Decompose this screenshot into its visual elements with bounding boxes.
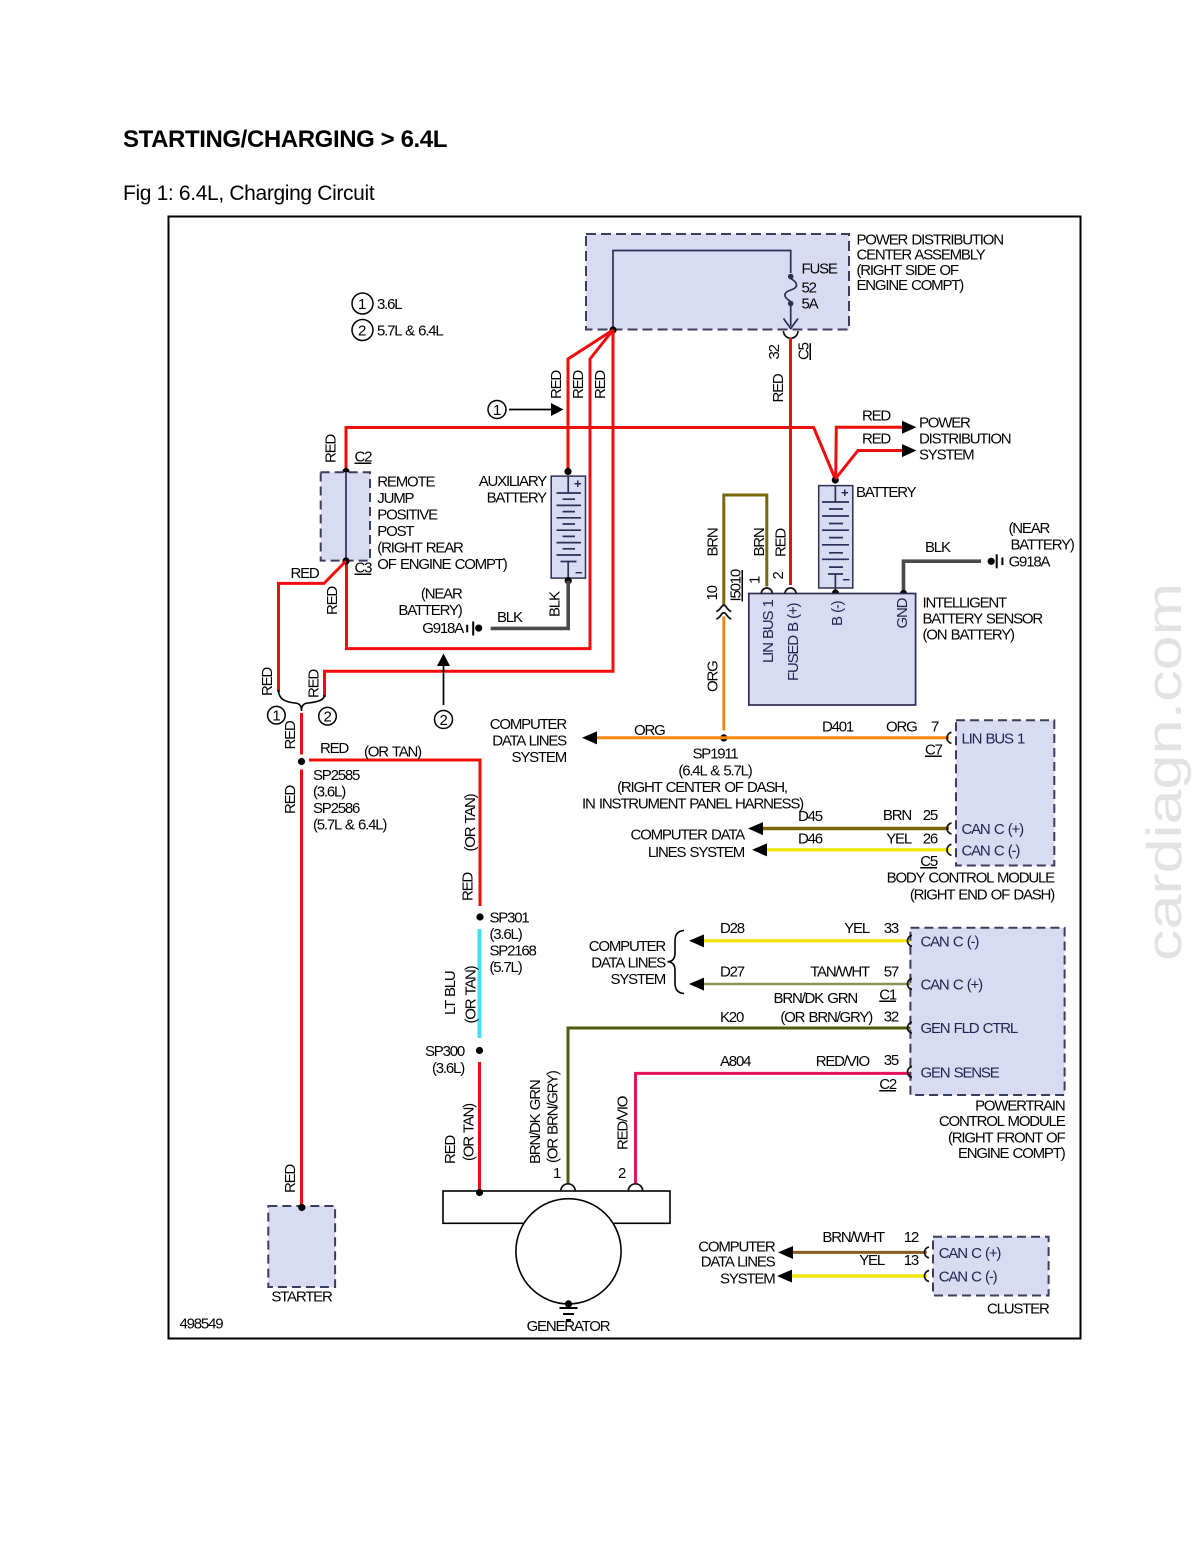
svg-text:C2: C2 (879, 1076, 897, 1093)
svg-text:POWERTRAIN: POWERTRAIN (975, 1097, 1065, 1114)
svg-text:(5.7L & 6.4L): (5.7L & 6.4L) (313, 817, 387, 834)
svg-text:CAN C (-): CAN C (-) (921, 933, 980, 950)
svg-text:SP2585: SP2585 (313, 767, 360, 784)
svg-text:BRN: BRN (883, 807, 911, 824)
wire ORG D401 row (582, 719, 949, 759)
svg-text:Fig 1: 6.4L, Charging Circuit: Fig 1: 6.4L, Charging Circuit (123, 182, 375, 205)
wire RED battery to power distribution system arrow 1 (836, 408, 917, 479)
svg-text:BLK: BLK (925, 539, 951, 556)
svg-text:BATTERY): BATTERY) (1011, 537, 1075, 554)
svg-text:BLK: BLK (547, 591, 564, 617)
PCM pin CAN C (-) (907, 933, 979, 950)
svg-text:JUMP: JUMP (377, 490, 414, 507)
computer data lines system label (D401) (490, 716, 568, 766)
svg-text:DISTRIBUTION: DISTRIBUTION (919, 431, 1011, 448)
wire YEL D46 row (752, 831, 949, 870)
svg-text:RED: RED (306, 669, 323, 698)
node generator B+ (476, 1189, 483, 1196)
svg-text:(OR TAN): (OR TAN) (462, 793, 479, 851)
svg-text:FUSED B (+): FUSED B (+) (785, 602, 802, 681)
legend note 1: 3.6L (352, 293, 402, 314)
svg-text:ORG: ORG (634, 722, 665, 739)
generator circle (516, 1199, 621, 1304)
auxiliary battery label (479, 473, 547, 507)
svg-text:G918A: G918A (1009, 554, 1051, 571)
svg-text:LINES SYSTEM: LINES SYSTEM (648, 844, 745, 861)
wire BRN/DK GRN K20 row (527, 990, 911, 1184)
wire RED battery to power distribution system arrow 2 (835, 431, 916, 480)
wire BRN/WHT cluster CAN C (+) row (778, 1229, 927, 1259)
inline connector I5010 (704, 569, 745, 619)
svg-text:OF ENGINE COMPT): OF ENGINE COMPT) (377, 556, 507, 573)
svg-text:COMPUTER: COMPUTER (589, 938, 667, 955)
svg-text:SYSTEM: SYSTEM (512, 749, 567, 766)
svg-text:RED: RED (862, 408, 891, 425)
splice SP300 label (425, 1043, 465, 1077)
intelligent battery sensor box (749, 594, 916, 706)
svg-text:(NEAR: (NEAR (1009, 520, 1051, 537)
svg-text:(OR TAN): (OR TAN) (463, 965, 480, 1023)
svg-text:BLK: BLK (497, 609, 523, 626)
svg-text:RED: RED (259, 667, 276, 696)
svg-text:−: − (575, 565, 583, 580)
splice SP2585 node (298, 758, 305, 765)
svg-text:TAN/WHT: TAN/WHT (810, 964, 870, 981)
svg-text:1: 1 (272, 708, 280, 725)
svg-text:−: − (843, 572, 851, 587)
cluster pin CAN C (+) (924, 1245, 1001, 1262)
svg-text:(RIGHT CENTER OF DASH,: (RIGHT CENTER OF DASH, (617, 779, 787, 796)
svg-text:SP300: SP300 (425, 1043, 465, 1060)
connector C3 label (355, 560, 373, 577)
generator ground (560, 1300, 578, 1320)
svg-text:SYSTEM: SYSTEM (919, 447, 974, 464)
svg-text:LIN BUS 1: LIN BUS 1 (760, 599, 777, 663)
starter label (271, 1289, 333, 1306)
svg-text:POST: POST (377, 523, 414, 540)
splice SP300 node (476, 1047, 483, 1054)
svg-text:RED: RED (442, 1135, 459, 1164)
svg-text:+: + (841, 485, 849, 500)
body control module box (956, 720, 1054, 865)
powertrain control module box (910, 928, 1064, 1095)
PCM pin CAN C (+) (907, 977, 983, 994)
svg-text:2: 2 (770, 572, 787, 580)
wire RED A: PDC to auxiliary battery (548, 330, 613, 470)
svg-text:RED: RED (548, 370, 565, 399)
PDC label (857, 232, 1004, 295)
svg-text:YEL: YEL (886, 831, 912, 848)
wire BLK IBS GND to G918A (right) (904, 539, 982, 594)
svg-text:COMPUTER DATA: COMPUTER DATA (631, 827, 746, 844)
svg-text:CAN C (+): CAN C (+) (921, 977, 984, 994)
figure caption (123, 182, 375, 205)
svg-text:RED: RED (324, 586, 341, 615)
svg-text:(OR BRN/GRY): (OR BRN/GRY) (780, 1009, 873, 1026)
diagram border frame (169, 217, 1081, 1339)
wire YEL cluster CAN C (-) row (777, 1252, 927, 1283)
merge bracket of branch wires (279, 690, 325, 711)
svg-text:C1: C1 (879, 987, 897, 1004)
svg-text:RED: RED (592, 370, 609, 399)
svg-text:POSITIVE: POSITIVE (377, 507, 438, 524)
svg-text:C2: C2 (355, 449, 373, 466)
wire YEL D28 row (689, 920, 911, 947)
svg-text:13: 13 (904, 1252, 919, 1269)
auxiliary battery (551, 476, 585, 580)
svg-text:IN INSTRUMENT PANEL HARNESS): IN INSTRUMENT PANEL HARNESS) (582, 796, 804, 813)
svg-text:RED: RED (770, 373, 787, 402)
BCM pin CAN C (+) (947, 821, 1024, 838)
svg-text:SP301: SP301 (490, 910, 530, 927)
power distribution center assembly box (586, 234, 849, 330)
splice SP2585 label (313, 767, 387, 834)
circled 1 at branch (268, 706, 286, 724)
starter box (268, 1206, 335, 1287)
junction node at PDC bottom (609, 326, 616, 333)
svg-text:C3: C3 (355, 560, 373, 577)
ground G918A near battery (right) (988, 520, 1075, 571)
cluster box (933, 1237, 1049, 1296)
wire LT BLU (OR TAN) (442, 929, 480, 1038)
watermark cardiagn.com (1137, 583, 1192, 961)
svg-text:(3.6L): (3.6L) (490, 926, 523, 943)
svg-text:RED: RED (460, 872, 477, 901)
fuse 52 5A (784, 261, 838, 329)
wire TAN/WHT D27 row (689, 964, 911, 1004)
computer data lines system label (D45/D46) (631, 827, 746, 862)
svg-text:STARTER: STARTER (271, 1289, 333, 1306)
IBS connector bump pin 1 (747, 576, 773, 594)
wire RED (OR TAN) to generator (442, 1062, 480, 1191)
remote jump post label (377, 474, 507, 574)
PCM label (939, 1097, 1066, 1162)
svg-text:10: 10 (704, 585, 721, 600)
svg-text:57: 57 (884, 964, 899, 981)
svg-text:cardiagn.com: cardiagn.com (1137, 583, 1192, 961)
svg-text:(RIGHT FRONT OF: (RIGHT FRONT OF (948, 1130, 1066, 1147)
svg-text:2: 2 (618, 1165, 626, 1182)
splice SP1911 label (582, 746, 804, 813)
IBS pin FUSED B (+) (785, 602, 802, 681)
svg-text:SP2168: SP2168 (490, 943, 537, 960)
svg-text:RED: RED (773, 528, 790, 557)
svg-text:(ON BATTERY): (ON BATTERY) (923, 627, 1016, 644)
wire RED C2 to battery V junction (323, 428, 836, 480)
svg-text:FUSE: FUSE (802, 261, 838, 278)
battery (819, 485, 853, 588)
node aux battery + (564, 468, 571, 475)
svg-text:INTELLIGENT: INTELLIGENT (923, 595, 1008, 612)
computer data lines system label (D28/D27) (589, 938, 667, 988)
svg-text:D28: D28 (720, 920, 745, 937)
wire RED C: PDC down to note-2 branch (306, 330, 614, 698)
svg-text:(NEAR: (NEAR (421, 586, 463, 603)
cluster label (987, 1301, 1050, 1318)
ground G918A near battery (left) (398, 586, 482, 638)
connector C2 label (355, 449, 373, 466)
svg-text:B (-): B (-) (829, 600, 846, 626)
svg-text:COMPUTER: COMPUTER (490, 716, 568, 733)
svg-text:C7: C7 (925, 742, 943, 759)
svg-text:SYSTEM: SYSTEM (611, 971, 666, 988)
svg-text:26: 26 (923, 831, 938, 848)
wire RED C3 to note-1 branch (259, 561, 346, 696)
svg-text:BODY CONTROL MODULE: BODY CONTROL MODULE (887, 870, 1056, 887)
svg-text:LT BLU: LT BLU (442, 971, 459, 1015)
svg-text:RED: RED (320, 740, 349, 757)
node aux battery - (565, 577, 572, 584)
node C3 bottom of jump post (342, 557, 349, 564)
svg-text:K20: K20 (720, 1009, 744, 1026)
svg-text:DATA LINES: DATA LINES (701, 1254, 776, 1271)
svg-text:DATA LINES: DATA LINES (492, 733, 567, 750)
svg-text:(3.6L): (3.6L) (313, 784, 346, 801)
svg-text:D45: D45 (798, 808, 823, 825)
generator connector bump pin 2 (618, 1165, 643, 1191)
svg-text:2: 2 (440, 712, 448, 729)
svg-text:C5: C5 (796, 342, 813, 360)
node IBS GND (900, 590, 907, 597)
svg-text:DATA LINES: DATA LINES (591, 955, 666, 972)
splice SP301 label (490, 910, 537, 977)
svg-text:SP1911: SP1911 (692, 746, 738, 763)
svg-text:(RIGHT REAR: (RIGHT REAR (377, 540, 464, 557)
svg-text:BRN/WHT: BRN/WHT (822, 1229, 885, 1246)
svg-text:52: 52 (802, 280, 817, 297)
svg-text:RED: RED (282, 720, 299, 749)
svg-text:3.6L: 3.6L (377, 296, 402, 313)
note 1 arrow pointer (488, 401, 564, 420)
svg-text:498549: 498549 (180, 1316, 224, 1333)
svg-text:(OR TAN): (OR TAN) (461, 1103, 478, 1161)
svg-text:GEN SENSE: GEN SENSE (921, 1065, 1000, 1082)
svg-text:BRN/DK GRN: BRN/DK GRN (774, 990, 858, 1007)
IBS pin LIN BUS 1 (760, 599, 777, 663)
node C2 top of jump post (342, 468, 349, 475)
svg-text:12: 12 (904, 1229, 919, 1246)
svg-text:5.7L & 6.4L: 5.7L & 6.4L (377, 323, 443, 340)
svg-text:G918A: G918A (422, 620, 464, 637)
PCM pin GEN SENSE (907, 1065, 999, 1082)
svg-text:I5010: I5010 (728, 569, 745, 601)
svg-text:32: 32 (766, 344, 783, 359)
BCM pin CAN C (-) (947, 842, 1020, 859)
svg-text:C5: C5 (920, 853, 938, 870)
svg-text:STARTING/CHARGING > 6.4L: STARTING/CHARGING > 6.4L (123, 126, 447, 153)
svg-text:GENERATOR: GENERATOR (527, 1318, 611, 1335)
IBS pin B (-) (829, 600, 846, 626)
connector C5 under fuse (766, 331, 813, 360)
svg-text:1: 1 (553, 1165, 561, 1182)
svg-text:2: 2 (324, 709, 332, 726)
svg-text:D27: D27 (720, 964, 745, 981)
svg-text:A804: A804 (720, 1053, 751, 1070)
svg-text:ENGINE COMPT): ENGINE COMPT) (857, 277, 965, 294)
svg-text:CAN C (-): CAN C (-) (962, 842, 1021, 859)
svg-text:SP2586: SP2586 (313, 800, 360, 817)
node starter feed (298, 1204, 305, 1211)
splice SP1911 node (720, 734, 727, 741)
svg-text:RED: RED (282, 785, 299, 814)
generator connector bump pin 1 (553, 1165, 575, 1191)
node battery + V junction (832, 476, 839, 483)
svg-text:35: 35 (884, 1052, 899, 1069)
cluster pin CAN C (-) (924, 1269, 997, 1286)
svg-text:POWER: POWER (919, 414, 971, 431)
svg-text:YEL: YEL (844, 920, 870, 937)
svg-text:CAN C (+): CAN C (+) (962, 821, 1025, 838)
svg-text:LIN BUS 1: LIN BUS 1 (962, 730, 1026, 747)
figure number 498549 (180, 1316, 224, 1333)
svg-text:BATTERY: BATTERY (487, 490, 548, 507)
circled 2 at branch (319, 707, 337, 725)
svg-text:25: 25 (923, 807, 938, 824)
title (123, 126, 447, 153)
svg-text:+: + (574, 476, 582, 491)
svg-text:GEN FLD CTRL: GEN FLD CTRL (921, 1020, 1018, 1037)
wire BLK aux battery to G918A (491, 581, 569, 629)
power distribution system label (919, 414, 1011, 463)
wire BRN IBS pin1 loop to I5010 (705, 495, 769, 605)
svg-text:7: 7 (931, 719, 939, 736)
wire RED/VIO A804 row (615, 1052, 911, 1183)
svg-text:RED: RED (282, 1164, 299, 1193)
main RED wire down to starter (282, 713, 302, 1206)
battery label (856, 484, 917, 501)
splice SP301 node (476, 913, 483, 920)
computer data lines system label (cluster) (698, 1238, 776, 1287)
svg-text:(OR TAN): (OR TAN) (364, 744, 422, 761)
wire RED (OR TAN) branch to SP301 (309, 740, 480, 906)
BCM label (887, 870, 1056, 904)
node battery - to IBS (832, 588, 839, 597)
svg-text:ORG: ORG (886, 719, 917, 736)
svg-text:D401: D401 (822, 719, 854, 736)
svg-text:(OR BRN/GRY): (OR BRN/GRY) (545, 1070, 562, 1163)
IBS connector bump pin 2 (770, 572, 796, 594)
svg-text:D46: D46 (798, 831, 823, 848)
svg-text:CAN C (+): CAN C (+) (939, 1245, 1002, 1262)
svg-text:AUXILIARY: AUXILIARY (479, 473, 547, 490)
BCM pin LIN BUS 1 (947, 730, 1025, 747)
svg-text:CONTROL MODULE: CONTROL MODULE (939, 1113, 1066, 1130)
svg-text:5A: 5A (802, 296, 819, 313)
svg-text:(5.7L): (5.7L) (490, 959, 523, 976)
wire RED fuse C5 to IBS pin 2 (770, 338, 791, 586)
svg-text:33: 33 (884, 920, 899, 937)
svg-text:CAN C (-): CAN C (-) (939, 1269, 998, 1286)
PCM pin GEN FLD CTRL (907, 1020, 1017, 1037)
svg-text:BRN/DK GRN: BRN/DK GRN (527, 1080, 544, 1164)
svg-text:BATTERY): BATTERY) (398, 602, 462, 619)
svg-text:CLUSTER: CLUSTER (987, 1301, 1050, 1318)
PDC internal bus wire (613, 251, 791, 330)
svg-text:BATTERY SENSOR: BATTERY SENSOR (923, 611, 1044, 628)
svg-text:GND: GND (894, 597, 911, 628)
IBS label (923, 595, 1044, 644)
svg-text:YEL: YEL (859, 1252, 885, 1269)
note 2 arrow pointer (435, 654, 453, 730)
wire RED B: PDC to C3 (347, 330, 614, 649)
svg-text:(3.6L): (3.6L) (432, 1060, 465, 1077)
svg-text:ENGINE COMPT): ENGINE COMPT) (958, 1145, 1066, 1162)
svg-text:1: 1 (358, 296, 366, 313)
brace for computer data lines (668, 931, 685, 994)
svg-text:1: 1 (747, 576, 764, 584)
generator label (527, 1318, 611, 1335)
svg-text:REMOTE: REMOTE (377, 474, 435, 491)
svg-text:1: 1 (493, 402, 501, 419)
svg-text:ORG: ORG (705, 661, 722, 692)
svg-text:(6.4L & 5.7L): (6.4L & 5.7L) (678, 763, 752, 780)
svg-text:BATTERY: BATTERY (856, 484, 917, 501)
wire ORG I5010 to SP1911 (705, 617, 724, 731)
remote jump positive post box (321, 472, 370, 560)
generator body (443, 1191, 670, 1223)
svg-text:(RIGHT END OF DASH): (RIGHT END OF DASH) (910, 887, 1055, 904)
wire BRN D45 row (748, 807, 949, 835)
svg-text:32: 32 (884, 1008, 899, 1025)
svg-text:RED: RED (323, 434, 340, 463)
svg-text:RED: RED (291, 565, 320, 582)
svg-text:BRN: BRN (751, 528, 768, 556)
svg-text:RED: RED (862, 431, 891, 448)
svg-text:2: 2 (358, 323, 366, 340)
svg-text:RED/VIO: RED/VIO (615, 1096, 632, 1150)
svg-text:BRN: BRN (705, 528, 722, 556)
IBS pin GND (894, 597, 911, 628)
svg-text:RED: RED (570, 370, 587, 399)
svg-text:SYSTEM: SYSTEM (720, 1271, 775, 1288)
svg-text:RED/VIO: RED/VIO (816, 1053, 870, 1070)
legend note 2: 5.7L & 6.4L (352, 320, 443, 341)
